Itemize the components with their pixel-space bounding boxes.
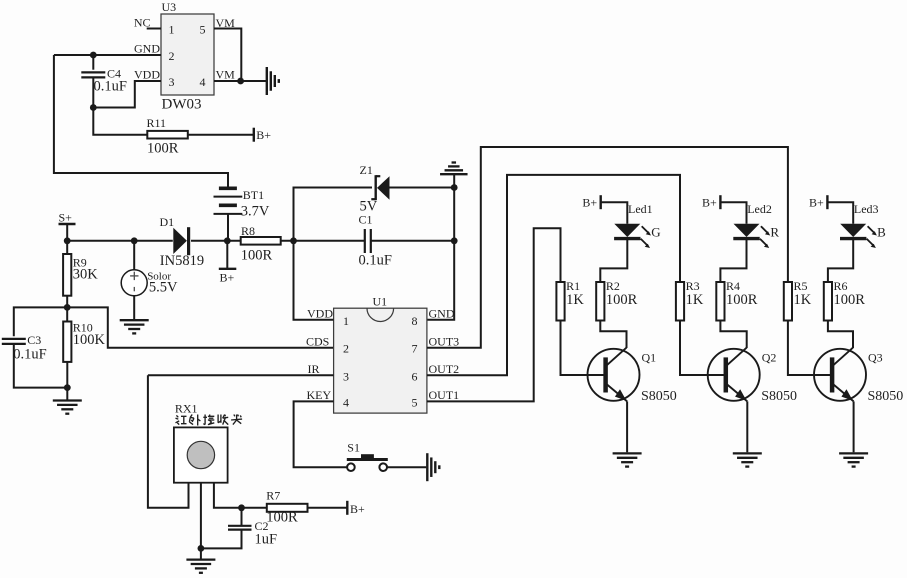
svg-text:0.1uF: 0.1uF bbox=[13, 347, 46, 363]
svg-text:30K: 30K bbox=[73, 267, 99, 283]
LED Led3 bbox=[840, 224, 877, 248]
svg-text:Led3: Led3 bbox=[854, 202, 879, 216]
terminal B+ near R11 bbox=[253, 128, 255, 142]
wire D1 to R8 bbox=[191, 240, 241, 242]
wire S1 to ground bbox=[387, 466, 426, 468]
wire R4 to Q2 collector bbox=[720, 321, 746, 349]
resistor R5 bbox=[784, 282, 792, 321]
wire Q2 emitter to ground bbox=[746, 401, 748, 452]
LED Led1 bbox=[614, 224, 651, 248]
switch S1 bbox=[347, 454, 388, 471]
wire OUT1 to R1 bbox=[427, 228, 561, 401]
svg-text:R11: R11 bbox=[147, 116, 167, 130]
wire C4 bottom to VDD node bbox=[92, 77, 94, 107]
wire up to top ground bbox=[453, 175, 455, 188]
svg-text:B+: B+ bbox=[582, 196, 597, 210]
wire OUT3 to R5 bbox=[427, 147, 788, 348]
wire C1 to GND vertical bbox=[371, 240, 454, 242]
junction R10 C3 ground node bbox=[64, 384, 71, 391]
resistor R9 bbox=[63, 254, 71, 296]
wire VDD branch up to Z1 bbox=[294, 188, 373, 241]
IC U1 body bbox=[334, 308, 427, 413]
solar cell BT source bbox=[121, 270, 147, 296]
svg-text:5: 5 bbox=[412, 396, 418, 410]
svg-text:1: 1 bbox=[343, 314, 349, 328]
svg-text:D1: D1 bbox=[160, 215, 175, 229]
wire VDD to U3 pin3 bbox=[135, 80, 161, 82]
svg-text:OUT1: OUT1 bbox=[429, 388, 460, 402]
wire B+ to Led2 bbox=[720, 202, 746, 224]
wire R8 to VDD branch and C1 bbox=[281, 240, 365, 242]
wire GND vertical to U1 pin8 bbox=[427, 188, 454, 320]
wire IR net to U1 pin3 bbox=[148, 374, 334, 376]
svg-text:U1: U1 bbox=[373, 295, 388, 309]
junction R7 C2 node bbox=[238, 504, 245, 511]
svg-text:Q1: Q1 bbox=[642, 351, 657, 365]
wire GND rail left side down to battery top bbox=[54, 55, 228, 188]
ground of R10 C3 bbox=[53, 401, 82, 414]
junction Z1 GND node bbox=[451, 184, 458, 191]
terminal B+ under battery bbox=[219, 268, 237, 270]
wire R11 to B+ terminal bbox=[188, 134, 254, 136]
terminal S+ bbox=[59, 223, 76, 225]
IC U3 DW03 body bbox=[161, 14, 214, 95]
junction RX1 ground node bbox=[198, 545, 205, 552]
svg-text:B: B bbox=[877, 225, 886, 240]
wire U3 pin5 VM down to pin4 row bbox=[214, 29, 241, 82]
capacitor C3 bbox=[2, 339, 26, 344]
svg-text:R7: R7 bbox=[266, 489, 280, 503]
svg-text:S1: S1 bbox=[347, 440, 360, 454]
wire S+ to main rail bbox=[66, 224, 68, 241]
svg-text:0.1uF: 0.1uF bbox=[94, 79, 127, 95]
wire Q3 emitter to ground bbox=[853, 401, 855, 452]
wire B+ to Led1 bbox=[601, 202, 628, 224]
transistor Q2 S8050 bbox=[708, 348, 760, 402]
svg-text:B+: B+ bbox=[256, 128, 271, 142]
wire CDS node to R10 bbox=[66, 307, 68, 321]
svg-text:1uF: 1uF bbox=[255, 532, 278, 548]
wire Z1 to GND vertical bbox=[389, 187, 454, 189]
svg-text:5: 5 bbox=[200, 23, 206, 37]
svg-text:100R: 100R bbox=[266, 510, 298, 526]
svg-text:IN5819: IN5819 bbox=[160, 253, 204, 269]
svg-text:1: 1 bbox=[169, 23, 175, 37]
junction solar cell tap bbox=[131, 237, 138, 244]
wire Led1 cathode to R2 bbox=[600, 239, 627, 282]
svg-text:NC: NC bbox=[134, 16, 151, 30]
svg-text:8: 8 bbox=[412, 314, 418, 328]
svg-text:RX1: RX1 bbox=[175, 402, 198, 416]
wire node to C2 top bbox=[241, 508, 243, 526]
svg-text:IR: IR bbox=[308, 362, 320, 376]
wire R10 to ground node bbox=[66, 362, 68, 388]
junction R9 R10 CDS node bbox=[64, 304, 71, 311]
wire Q1 emitter to ground bbox=[626, 401, 628, 452]
wire to B+ tap under battery bbox=[226, 241, 228, 269]
wire R1 to Q1 base bbox=[561, 321, 605, 376]
svg-text:4: 4 bbox=[343, 396, 349, 410]
resistor R8 bbox=[241, 237, 281, 245]
wire VDD node down to R11 bbox=[93, 108, 147, 135]
junction battery on main rail bbox=[224, 237, 231, 244]
svg-text:3: 3 bbox=[343, 369, 349, 383]
resistor R11 bbox=[147, 131, 188, 139]
svg-text:OUT2: OUT2 bbox=[429, 362, 460, 376]
capacitor C2 bbox=[228, 526, 252, 530]
wire R9 to CDS node bbox=[66, 296, 68, 308]
junction C1 GND node bbox=[451, 237, 458, 244]
LED Led2 bbox=[733, 224, 770, 248]
svg-text:1K: 1K bbox=[686, 292, 704, 308]
svg-text:4: 4 bbox=[200, 75, 206, 89]
svg-text:7: 7 bbox=[412, 342, 418, 356]
transistor Q1 S8050 bbox=[588, 348, 640, 402]
svg-text:3.7V: 3.7V bbox=[241, 204, 270, 220]
wire main rail S+ to D1 bbox=[67, 240, 173, 242]
svg-text:R: R bbox=[770, 225, 779, 240]
wire RX1 middle pin to ground net bbox=[200, 483, 202, 549]
ground of Q1 bbox=[613, 453, 642, 466]
wire solar cell to ground bbox=[133, 296, 135, 319]
wire GND net to U3 pin2 bbox=[54, 54, 161, 56]
svg-text:GND: GND bbox=[134, 42, 160, 56]
svg-text:S+: S+ bbox=[59, 211, 73, 225]
svg-text:2: 2 bbox=[343, 342, 349, 356]
wire C3 bottom to R10 bottom bbox=[14, 344, 68, 388]
ground of Q3 bbox=[839, 453, 868, 466]
svg-text:U3: U3 bbox=[162, 0, 177, 14]
ground of solar cell bbox=[120, 320, 149, 333]
wire Led2 cathode to R4 bbox=[720, 239, 746, 282]
svg-text:DW03: DW03 bbox=[162, 97, 202, 113]
wire RX1 right pin to R7 C2 node bbox=[214, 483, 267, 508]
ground of Q2 bbox=[733, 453, 762, 466]
resistor R6 bbox=[824, 282, 832, 321]
junction VDD / C4 / R11 node bbox=[90, 104, 97, 111]
battery BT1 bbox=[214, 188, 243, 214]
svg-text:Q2: Q2 bbox=[762, 351, 777, 365]
wire R3 to Q2 base bbox=[680, 321, 725, 376]
wire RX1 out pin to IR net bbox=[148, 375, 189, 508]
svg-text:100K: 100K bbox=[73, 332, 106, 348]
svg-text:Z1: Z1 bbox=[360, 163, 373, 177]
wire rail to solar cell bbox=[133, 241, 135, 270]
wire R6 to Q3 collector bbox=[828, 321, 853, 349]
svg-text:0.1uF: 0.1uF bbox=[359, 253, 392, 269]
svg-text:BT1: BT1 bbox=[243, 188, 264, 202]
wire U3 pin1 NC stub bbox=[147, 28, 161, 30]
svg-text:Led2: Led2 bbox=[747, 202, 772, 216]
junction S+ R9 node bbox=[64, 237, 71, 244]
wire R2 to Q1 collector bbox=[600, 321, 626, 349]
svg-text:100R: 100R bbox=[726, 292, 758, 308]
wire VDD jog to C4 node bbox=[93, 81, 161, 108]
svg-text:C1: C1 bbox=[359, 213, 373, 227]
svg-text:VDD: VDD bbox=[134, 68, 160, 82]
svg-text:OUT3: OUT3 bbox=[429, 335, 460, 349]
svg-text:B+: B+ bbox=[702, 196, 717, 210]
wire KEY pin to S1 bbox=[294, 401, 348, 467]
svg-text:G: G bbox=[651, 225, 660, 240]
wire to ground under R10 bbox=[66, 388, 68, 400]
resistor R2 bbox=[596, 282, 604, 321]
junction C4 top on GND wire bbox=[90, 52, 97, 59]
capacitor C4 bbox=[81, 72, 105, 77]
svg-text:100R: 100R bbox=[834, 292, 866, 308]
wire R7 to B+ terminal bbox=[308, 507, 348, 509]
svg-text:GND: GND bbox=[429, 307, 455, 321]
terminal B+ near R7 bbox=[346, 501, 348, 515]
svg-text:VM: VM bbox=[216, 68, 236, 82]
svg-text:100R: 100R bbox=[606, 292, 638, 308]
wire U3 pin4 VM to ground bbox=[214, 80, 267, 82]
ground of U3 VM (sideways) bbox=[267, 67, 279, 95]
wire B+ to Led3 bbox=[827, 202, 853, 224]
svg-text:1K: 1K bbox=[794, 292, 812, 308]
wire C4 top bbox=[92, 55, 94, 70]
ground of RX1 C2 bbox=[186, 560, 215, 573]
svg-text:CDS: CDS bbox=[306, 335, 329, 349]
terminal B+ of Led3 bbox=[826, 195, 828, 209]
wire battery to main rail bbox=[227, 214, 229, 241]
wire OUT2 to R3 bbox=[427, 175, 680, 375]
diode D1 bbox=[173, 227, 188, 255]
svg-text:Q3: Q3 bbox=[868, 351, 883, 365]
label hongwai jieshoutou (Chinese) bbox=[176, 415, 243, 426]
svg-text:6: 6 bbox=[412, 369, 418, 383]
svg-text:R8: R8 bbox=[241, 224, 255, 238]
resistor R10 bbox=[63, 322, 71, 362]
svg-text:B+: B+ bbox=[809, 196, 824, 210]
zener diode Z1 bbox=[371, 175, 389, 200]
IR receiver RX1 body bbox=[174, 427, 228, 482]
ground top (pointing up) bbox=[440, 163, 468, 175]
resistor R1 bbox=[556, 282, 564, 321]
svg-text:Led1: Led1 bbox=[628, 202, 653, 216]
wire CDS net to U1 pin2 bbox=[67, 307, 333, 347]
svg-text:VM: VM bbox=[216, 16, 236, 30]
terminal B+ of Led1 bbox=[600, 195, 602, 209]
transistor Q3 S8050 bbox=[814, 348, 866, 402]
svg-text:KEY: KEY bbox=[307, 388, 332, 402]
resistor R7 bbox=[267, 504, 308, 512]
ground of S1 (sideways) bbox=[427, 453, 439, 481]
wire CDS node left to C3 bbox=[14, 307, 67, 336]
svg-text:3: 3 bbox=[169, 75, 175, 89]
svg-text:S8050: S8050 bbox=[868, 389, 904, 404]
svg-text:B+: B+ bbox=[350, 502, 365, 516]
wire C2 bottom to RX1 ground bbox=[201, 530, 242, 549]
capacitor C1 bbox=[365, 229, 371, 253]
svg-text:C3: C3 bbox=[27, 333, 41, 347]
svg-text:100R: 100R bbox=[241, 248, 273, 264]
resistor R4 bbox=[716, 282, 724, 321]
terminal B+ of Led2 bbox=[719, 195, 721, 209]
svg-text:1K: 1K bbox=[566, 292, 584, 308]
resistor R3 bbox=[676, 282, 684, 321]
svg-text:100R: 100R bbox=[147, 141, 179, 157]
svg-text:B+: B+ bbox=[220, 271, 235, 285]
svg-text:5.5V: 5.5V bbox=[149, 280, 178, 296]
junction VDD branch node bbox=[290, 237, 297, 244]
svg-text:S8050: S8050 bbox=[761, 389, 797, 404]
svg-text:VDD: VDD bbox=[307, 307, 333, 321]
wire R5 to Q3 base bbox=[788, 321, 831, 376]
svg-text:2: 2 bbox=[169, 49, 175, 63]
wire rail to R9 bbox=[66, 241, 68, 254]
wire VDD branch down to U1 pin1 bbox=[294, 241, 334, 320]
svg-text:S8050: S8050 bbox=[641, 389, 677, 404]
wire Led3 cathode to R6 bbox=[828, 239, 853, 282]
wire to RX1 ground symbol bbox=[200, 548, 202, 558]
junction U3 pin4 VM node bbox=[237, 78, 244, 85]
